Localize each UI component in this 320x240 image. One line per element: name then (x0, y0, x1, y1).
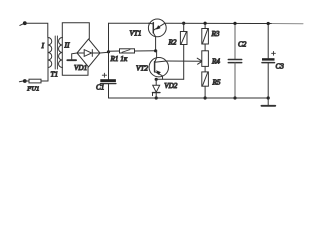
svg-text:T1: T1 (51, 71, 59, 79)
svg-text:R5: R5 (212, 79, 221, 87)
wire secondary top to bridge top vertex (62, 23, 89, 39)
capacitor C3 (262, 24, 275, 99)
node C2 bottom junction (233, 96, 236, 99)
node A junction (107, 50, 110, 53)
resistor R2 (180, 23, 187, 79)
wire bridge right vertex to node A (100, 51, 109, 54)
capacitor C2 (228, 23, 241, 98)
svg-text:VD1: VD1 (74, 64, 87, 72)
wire riser node A to top rail (108, 23, 110, 52)
node VD2 bottom junction (155, 96, 158, 99)
svg-text:R4: R4 (211, 57, 220, 65)
node R2 top junction (182, 22, 185, 25)
transformer T1 primary winding I (48, 38, 52, 68)
wire secondary bottom to bridge bottom vertex (62, 67, 88, 75)
fuse FU1 (25, 79, 48, 83)
resistor R5 (202, 72, 209, 98)
top rail continues (regulated +) (165, 22, 272, 24)
input terminal bottom (19, 79, 26, 83)
transistor VT2 (149, 57, 168, 79)
svg-text:VD2: VD2 (164, 82, 178, 90)
top rail (unregulated +) (109, 22, 150, 24)
wire input top to transformer primary (25, 23, 48, 37)
node B junction (VT1 base / R1 / VT2 collector) (154, 49, 157, 52)
potentiometer R4 (202, 51, 209, 72)
label + of C3 (272, 51, 276, 55)
svg-text:FU1: FU1 (26, 85, 39, 92)
node R3 top junction (204, 22, 207, 25)
capacitor C1 (100, 52, 116, 98)
node R5 bottom junction (204, 96, 207, 99)
node C3 bottom junction (267, 96, 270, 99)
svg-text:I: I (41, 41, 45, 50)
transistor VT1 (148, 19, 166, 51)
svg-text:R1 1к: R1 1к (110, 55, 128, 63)
transformer T1 secondary winding II (59, 38, 63, 68)
node C3 top junction (267, 22, 270, 25)
ground (output minus) (261, 98, 275, 106)
R4 wiper arrowhead (197, 58, 202, 64)
svg-text:VT2: VT2 (136, 65, 148, 73)
svg-text:R2: R2 (168, 39, 177, 47)
svg-text:C3: C3 (276, 63, 285, 71)
resistor R3 (202, 23, 209, 51)
ground (bridge minus) (67, 59, 76, 61)
wire fuse to primary bottom (47, 68, 49, 82)
bottom rail (minus) (109, 97, 269, 99)
resistor R1 (109, 49, 156, 53)
transformer core (55, 36, 57, 69)
node C2 top junction (233, 22, 236, 25)
wire bridge left vertex to ground (72, 53, 77, 60)
svg-text:C1: C1 (96, 84, 104, 92)
wire R2 bottom to zener node (156, 78, 184, 80)
svg-text:R3: R3 (211, 30, 220, 38)
svg-text:II: II (64, 41, 70, 50)
svg-text:VT1: VT1 (130, 30, 142, 38)
bridge rectifier VD1 (77, 39, 100, 67)
zener diode VD2 (153, 79, 160, 98)
input terminal top (20, 21, 27, 25)
svg-text:C2: C2 (238, 41, 247, 49)
wire node B to VT2 collector (156, 51, 158, 58)
label + of C1 (102, 73, 106, 77)
node zener top junction (155, 78, 158, 81)
wire VT2 base to R4 wiper (166, 60, 202, 62)
